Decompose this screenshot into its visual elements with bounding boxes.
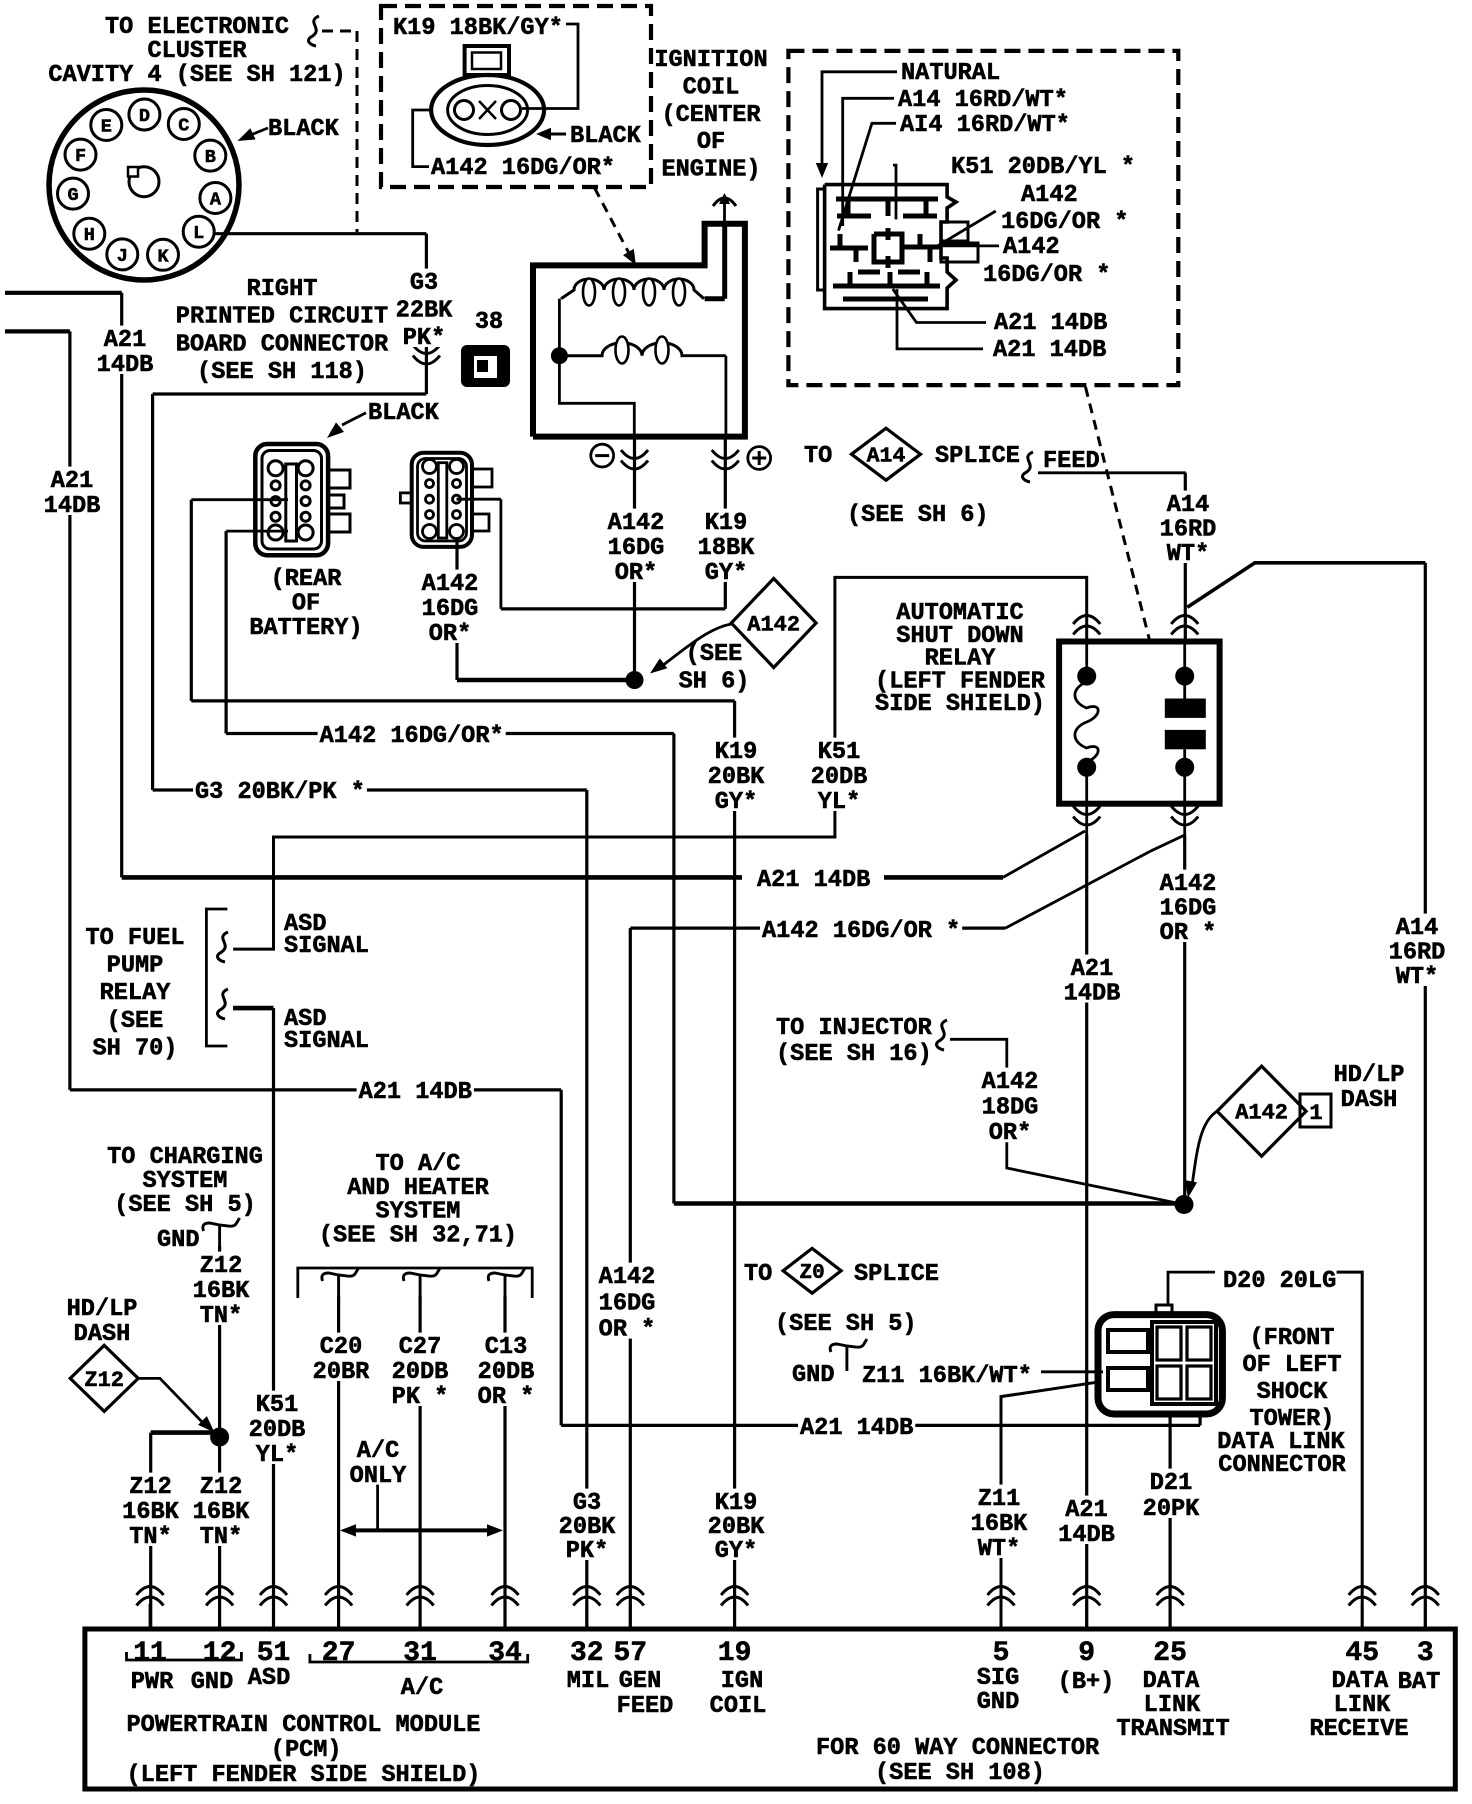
svg-text:G: G xyxy=(67,185,78,206)
svg-text:A142 16DG/OR*: A142 16DG/OR* xyxy=(320,723,504,750)
svg-text:BLACK: BLACK xyxy=(570,123,642,150)
svg-text:A21: A21 xyxy=(51,468,93,495)
svg-text:BATTERY): BATTERY) xyxy=(249,615,362,642)
svg-text:SPLICE: SPLICE xyxy=(854,1261,939,1288)
svg-text:BOARD CONNECTOR: BOARD CONNECTOR xyxy=(176,331,389,358)
svg-text:(SEE SH 108): (SEE SH 108) xyxy=(875,1760,1045,1787)
svg-text:CAVITY 4 (SEE SH 121): CAVITY 4 (SEE SH 121) xyxy=(48,62,345,89)
svg-text:31: 31 xyxy=(403,1638,437,1669)
svg-text:16BK: 16BK xyxy=(193,1278,250,1305)
svg-text:16RD: 16RD xyxy=(1389,940,1446,967)
svg-text:20DB: 20DB xyxy=(478,1359,535,1386)
svg-text:A142: A142 xyxy=(422,571,479,598)
svg-text:A14: A14 xyxy=(867,445,906,469)
svg-text:POWERTRAIN CONTROL MODULE: POWERTRAIN CONTROL MODULE xyxy=(127,1712,481,1739)
svg-text:Z11: Z11 xyxy=(978,1486,1020,1513)
svg-text:ONLY: ONLY xyxy=(350,1463,407,1490)
svg-text:TRANSMIT: TRANSMIT xyxy=(1116,1716,1229,1743)
svg-text:SIGNAL: SIGNAL xyxy=(284,1028,369,1055)
svg-text:C: C xyxy=(178,116,189,137)
svg-text:A/C: A/C xyxy=(357,1438,399,1465)
svg-text:27: 27 xyxy=(322,1638,356,1669)
svg-text:AI4 16RD/WT*: AI4 16RD/WT* xyxy=(900,112,1070,139)
svg-text:SIDE SHIELD): SIDE SHIELD) xyxy=(875,691,1045,718)
svg-text:TO FUEL: TO FUEL xyxy=(85,925,184,952)
svg-text:A: A xyxy=(210,190,222,211)
svg-text:GND: GND xyxy=(977,1689,1019,1716)
svg-text:OR*: OR* xyxy=(615,560,657,587)
svg-text:A21: A21 xyxy=(1065,1497,1107,1524)
svg-text:TO CHARGING: TO CHARGING xyxy=(107,1144,263,1171)
svg-text:SH 6): SH 6) xyxy=(679,669,750,696)
svg-text:16BK: 16BK xyxy=(193,1499,250,1526)
svg-text:TN*: TN* xyxy=(200,1303,242,1330)
svg-text:YL*: YL* xyxy=(818,789,860,816)
svg-text:11: 11 xyxy=(133,1638,167,1669)
svg-text:TO: TO xyxy=(744,1261,772,1288)
svg-text:RECEIVE: RECEIVE xyxy=(1309,1716,1408,1743)
svg-text:RIGHT: RIGHT xyxy=(247,276,318,303)
svg-text:K19 18BK/GY*: K19 18BK/GY* xyxy=(393,15,563,42)
svg-text:A142: A142 xyxy=(608,510,665,537)
svg-text:3: 3 xyxy=(1417,1638,1434,1669)
svg-text:A14: A14 xyxy=(1396,915,1438,942)
svg-text:14DB: 14DB xyxy=(1064,981,1121,1008)
svg-text:16DG/OR *: 16DG/OR * xyxy=(1001,209,1128,236)
svg-text:16DG: 16DG xyxy=(599,1290,656,1317)
svg-text:J: J xyxy=(117,246,128,267)
svg-text:DATA: DATA xyxy=(1143,1668,1200,1695)
svg-text:(LEFT FENDER SIDE SHIELD): (LEFT FENDER SIDE SHIELD) xyxy=(127,1762,481,1789)
svg-text:OR*: OR* xyxy=(429,621,471,648)
svg-text:LINK: LINK xyxy=(1334,1692,1391,1719)
svg-text:K: K xyxy=(157,246,169,267)
svg-text:45: 45 xyxy=(1345,1638,1379,1669)
svg-text:20DB: 20DB xyxy=(811,764,868,791)
svg-text:A21 14DB: A21 14DB xyxy=(757,867,870,894)
svg-text:32: 32 xyxy=(570,1638,604,1669)
svg-text:E: E xyxy=(101,117,112,138)
svg-text:C27: C27 xyxy=(399,1334,441,1361)
svg-text:DASH: DASH xyxy=(74,1321,131,1348)
svg-text:B: B xyxy=(205,147,216,168)
svg-text:20PK: 20PK xyxy=(1143,1496,1200,1523)
svg-text:FEED: FEED xyxy=(1043,448,1100,475)
svg-text:BAT: BAT xyxy=(1398,1669,1440,1696)
svg-text:(FRONT: (FRONT xyxy=(1250,1325,1335,1352)
svg-text:D20 20LG: D20 20LG xyxy=(1223,1268,1336,1295)
svg-text:22BK: 22BK xyxy=(396,298,453,325)
svg-text:PRINTED CIRCUIT: PRINTED CIRCUIT xyxy=(176,304,388,331)
svg-text:CONNECTOR: CONNECTOR xyxy=(1218,1452,1346,1479)
svg-text:16DG: 16DG xyxy=(608,535,665,562)
svg-text:20BK: 20BK xyxy=(708,764,765,791)
svg-text:GEN: GEN xyxy=(619,1668,661,1695)
svg-text:TO INJECTOR: TO INJECTOR xyxy=(776,1015,933,1042)
svg-text:YL*: YL* xyxy=(256,1442,298,1469)
svg-text:WT*: WT* xyxy=(1396,964,1438,991)
svg-text:12: 12 xyxy=(203,1638,237,1669)
svg-text:OR*: OR* xyxy=(989,1120,1031,1147)
svg-text:SHOCK: SHOCK xyxy=(1257,1379,1329,1406)
svg-text:OF: OF xyxy=(292,591,320,618)
svg-text:20BK: 20BK xyxy=(708,1514,765,1541)
svg-text:A142: A142 xyxy=(1160,871,1217,898)
svg-text:A142: A142 xyxy=(1235,1101,1288,1126)
svg-text:FEED: FEED xyxy=(617,1693,674,1720)
svg-text:20DB: 20DB xyxy=(392,1359,449,1386)
svg-text:25: 25 xyxy=(1153,1638,1187,1669)
svg-text:14DB: 14DB xyxy=(1058,1522,1115,1549)
svg-text:COIL: COIL xyxy=(710,1693,767,1720)
svg-text:IGN: IGN xyxy=(721,1668,763,1695)
svg-text:A21 14DB: A21 14DB xyxy=(993,337,1106,364)
svg-text:14DB: 14DB xyxy=(97,352,154,379)
svg-text:A142 16DG/OR *: A142 16DG/OR * xyxy=(762,918,960,945)
svg-text:A21: A21 xyxy=(1071,956,1113,983)
svg-text:OR *: OR * xyxy=(1160,920,1217,947)
svg-text:MIL: MIL xyxy=(567,1668,609,1695)
svg-text:SYSTEM: SYSTEM xyxy=(143,1168,228,1195)
svg-text:DATA: DATA xyxy=(1332,1668,1389,1695)
svg-text:(SEE SH 5): (SEE SH 5) xyxy=(114,1192,256,1219)
svg-text:GND: GND xyxy=(157,1227,199,1254)
svg-text:9: 9 xyxy=(1078,1638,1095,1669)
svg-text:(SEE: (SEE xyxy=(107,1008,164,1035)
svg-text:RELAY: RELAY xyxy=(100,980,172,1007)
svg-text:19: 19 xyxy=(718,1638,752,1669)
svg-text:BLACK: BLACK xyxy=(268,116,340,143)
svg-text:G3: G3 xyxy=(573,1490,601,1517)
svg-text:A21 14DB: A21 14DB xyxy=(359,1079,472,1106)
svg-text:38: 38 xyxy=(475,309,503,336)
svg-text:16RD: 16RD xyxy=(1160,517,1217,544)
svg-text:A142: A142 xyxy=(1021,182,1078,209)
svg-text:57: 57 xyxy=(613,1638,647,1669)
svg-text:D21: D21 xyxy=(1150,1470,1192,1497)
svg-text:Z11 16BK/WT*: Z11 16BK/WT* xyxy=(862,1363,1032,1390)
svg-text:COIL: COIL xyxy=(683,74,740,101)
svg-text:(REAR: (REAR xyxy=(271,566,343,593)
svg-text:F: F xyxy=(75,146,86,167)
svg-text:GY*: GY* xyxy=(705,560,747,587)
svg-text:18DG: 18DG xyxy=(982,1095,1039,1122)
svg-text:SH 70): SH 70) xyxy=(93,1035,178,1062)
svg-text:OF: OF xyxy=(697,129,725,156)
svg-text:(B+): (B+) xyxy=(1058,1669,1115,1696)
svg-text:GND: GND xyxy=(792,1362,834,1389)
svg-text:K19: K19 xyxy=(715,1490,757,1517)
svg-text:(CENTER: (CENTER xyxy=(661,102,761,129)
svg-text:WT*: WT* xyxy=(978,1536,1020,1563)
svg-text:SPLICE: SPLICE xyxy=(935,443,1020,470)
svg-text:K51: K51 xyxy=(818,739,860,766)
svg-text:A142: A142 xyxy=(599,1264,656,1291)
svg-text:Z12: Z12 xyxy=(129,1474,171,1501)
svg-text:PK *: PK * xyxy=(392,1384,449,1411)
svg-text:1: 1 xyxy=(1309,1101,1322,1126)
svg-text:TO ELECTRONIC: TO ELECTRONIC xyxy=(105,14,289,41)
svg-text:K51: K51 xyxy=(256,1392,298,1419)
svg-text:G3: G3 xyxy=(410,270,438,297)
svg-text:L: L xyxy=(193,223,204,244)
svg-text:PWR: PWR xyxy=(131,1669,174,1696)
svg-text:FOR 60 WAY CONNECTOR: FOR 60 WAY CONNECTOR xyxy=(816,1735,1100,1762)
svg-text:16BK: 16BK xyxy=(122,1499,179,1526)
svg-text:DASH: DASH xyxy=(1341,1087,1398,1114)
svg-text:(PCM): (PCM) xyxy=(271,1737,342,1764)
svg-text:NATURAL: NATURAL xyxy=(901,60,1000,87)
svg-text:18BK: 18BK xyxy=(698,535,755,562)
svg-text:16DG/OR *: 16DG/OR * xyxy=(983,262,1110,289)
svg-text:Z0: Z0 xyxy=(799,1262,824,1285)
svg-text:Z12: Z12 xyxy=(200,1253,242,1280)
svg-text:16BK: 16BK xyxy=(971,1511,1028,1538)
svg-text:14DB: 14DB xyxy=(44,493,101,520)
svg-text:34: 34 xyxy=(488,1638,522,1669)
svg-text:16DG: 16DG xyxy=(422,596,479,623)
svg-text:C20: C20 xyxy=(320,1334,362,1361)
svg-text:OR *: OR * xyxy=(599,1317,656,1344)
svg-text:(SEE SH 118): (SEE SH 118) xyxy=(197,359,367,386)
svg-text:HD/LP: HD/LP xyxy=(67,1296,138,1323)
svg-text:A142: A142 xyxy=(982,1069,1039,1096)
svg-text:K51 20DB/YL *: K51 20DB/YL * xyxy=(951,154,1135,181)
svg-text:BLACK: BLACK xyxy=(368,400,440,427)
svg-text:IGNITION: IGNITION xyxy=(654,47,767,74)
svg-text:D: D xyxy=(139,106,150,127)
svg-text:GY*: GY* xyxy=(715,1538,757,1565)
svg-text:(SEE SH 5): (SEE SH 5) xyxy=(775,1311,917,1338)
svg-text:A142: A142 xyxy=(747,612,800,637)
svg-text:PUMP: PUMP xyxy=(107,953,164,980)
svg-text:H: H xyxy=(84,225,95,246)
svg-text:(SEE: (SEE xyxy=(686,641,743,668)
svg-text:20BK: 20BK xyxy=(559,1514,616,1541)
svg-text:(SEE SH 6): (SEE SH 6) xyxy=(847,502,989,529)
svg-text:WT*: WT* xyxy=(1167,541,1209,568)
svg-text:A142: A142 xyxy=(1003,234,1060,261)
svg-text:A142 16DG/OR*: A142 16DG/OR* xyxy=(431,155,615,182)
svg-text:(SEE SH 16): (SEE SH 16) xyxy=(776,1041,932,1068)
svg-text:A/C: A/C xyxy=(401,1675,443,1702)
svg-text:TN*: TN* xyxy=(129,1524,171,1551)
svg-text:20BR: 20BR xyxy=(313,1359,370,1386)
svg-text:A21 14DB: A21 14DB xyxy=(800,1415,913,1442)
svg-text:A14: A14 xyxy=(1167,492,1209,519)
svg-text:LINK: LINK xyxy=(1144,1692,1201,1719)
svg-text:CLUSTER: CLUSTER xyxy=(147,38,247,65)
svg-text:SIG: SIG xyxy=(977,1665,1019,1692)
svg-text:ENGINE): ENGINE) xyxy=(661,157,760,184)
svg-text:TO: TO xyxy=(804,443,832,470)
svg-text:20DB: 20DB xyxy=(249,1417,306,1444)
svg-text:TN*: TN* xyxy=(200,1524,242,1551)
svg-text:PK*: PK* xyxy=(403,325,445,352)
svg-text:SIGNAL: SIGNAL xyxy=(284,933,369,960)
svg-text:K19: K19 xyxy=(705,510,747,537)
svg-text:OR *: OR * xyxy=(478,1384,535,1411)
svg-text:A14 16RD/WT*: A14 16RD/WT* xyxy=(898,87,1068,114)
svg-text:16DG: 16DG xyxy=(1160,896,1217,923)
svg-text:A21: A21 xyxy=(104,327,146,354)
svg-text:Z12: Z12 xyxy=(84,1368,124,1393)
svg-text:GY*: GY* xyxy=(715,789,757,816)
svg-text:GND: GND xyxy=(191,1669,233,1696)
svg-text:(SEE SH 32,71): (SEE SH 32,71) xyxy=(319,1222,517,1249)
svg-text:K19: K19 xyxy=(715,739,757,766)
svg-text:PK*: PK* xyxy=(566,1538,608,1565)
svg-text:A21 14DB: A21 14DB xyxy=(994,310,1107,337)
svg-text:G3 20BK/PK *: G3 20BK/PK * xyxy=(195,779,365,806)
svg-text:HD/LP: HD/LP xyxy=(1334,1062,1405,1089)
svg-text:OF LEFT: OF LEFT xyxy=(1242,1352,1341,1379)
svg-text:Z12: Z12 xyxy=(200,1474,242,1501)
svg-text:C13: C13 xyxy=(485,1334,527,1361)
svg-text:ASD: ASD xyxy=(248,1665,290,1692)
